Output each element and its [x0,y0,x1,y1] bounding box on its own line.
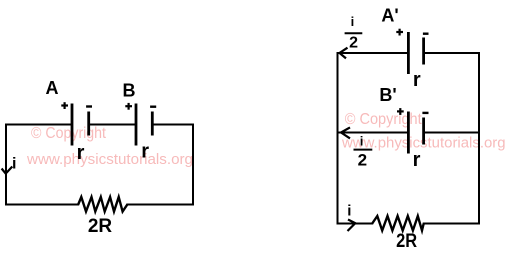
current arrow i/2 top branch (left) [340,48,348,59]
current label i/2 top branch [345,14,363,52]
wire right-circuit middle-right segment [424,132,479,134]
svg-text:r: r [141,141,149,163]
battery B plus sign [125,103,132,110]
svg-text:A: A [46,78,59,98]
battery B' negative plate [422,118,425,145]
svg-text:i: i [360,133,364,148]
svg-text:2R: 2R [88,216,113,237]
current arrow i bottom branch (right) [348,220,356,232]
battery A positive plate [71,104,74,146]
wire left-circuit bottom-left segment [6,204,78,206]
wire left-circuit right side [192,125,194,205]
battery A' positive plate [407,32,410,74]
battery A negative plate [87,112,90,136]
wire right-circuit left side [337,53,339,224]
battery A' plus sign [396,29,403,36]
battery B minus sign [150,105,156,107]
svg-text:2: 2 [349,35,358,52]
svg-text:© Copyright: © Copyright [345,111,422,128]
wire right-circuit bottom-right segment [424,223,479,225]
current arrow i left circuit (down) [2,167,13,174]
wire right-circuit top-right segment [424,52,479,54]
svg-text:B: B [123,81,136,101]
current label i/2 middle branch [354,133,373,169]
svg-text:r: r [77,142,85,164]
svg-text:B': B' [379,85,396,105]
battery B' positive plate [407,112,410,154]
wire right-circuit right side [478,53,480,224]
wire right-circuit middle-left segment [338,132,408,134]
svg-text:© Copyright: © Copyright [31,125,106,142]
wire left-circuit between battery A and battery B [89,124,136,126]
resistor 2R right circuit [372,216,424,231]
svg-text:r: r [413,69,421,91]
svg-text:www.physicstutorials.org: www.physicstutorials.org [26,151,193,168]
current arrow i/2 middle branch (left) [341,127,350,138]
svg-text:2: 2 [358,151,367,170]
svg-text:A': A' [381,6,398,26]
wire right-circuit top-left segment [338,52,408,54]
wire right-circuit bottom-left segment [338,223,373,225]
battery B' plus sign [397,108,404,115]
resistor 2R left circuit [78,197,127,212]
svg-text:2R: 2R [396,231,417,252]
svg-text:i: i [12,156,16,173]
svg-text:r: r [413,149,421,171]
battery A' negative plate [422,38,425,65]
svg-text:i: i [347,202,351,219]
battery A plus sign [61,102,68,109]
svg-text:i: i [351,14,355,29]
battery A minus sign [86,105,92,107]
wire left-circuit left side [5,125,7,205]
battery B negative plate [151,112,154,136]
battery B' minus sign [422,112,428,114]
battery B positive plate [135,104,138,146]
wire left-circuit top-left segment [6,124,72,126]
wire left-circuit bottom-right segment [127,204,193,206]
battery A' minus sign [423,33,429,35]
wire left-circuit top-right segment [152,124,193,126]
